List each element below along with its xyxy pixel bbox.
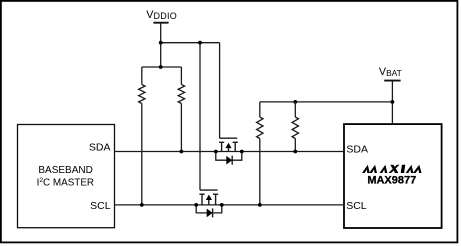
- transistor Q2 (SCL level shifter MOSFET): [199, 190, 218, 205]
- resistor R1 (VDDIO pullup to SCL): [139, 67, 145, 205]
- Q2 body diode: [196, 205, 222, 213]
- svg-text:SCL: SCL: [90, 200, 111, 212]
- transistor Q1 (SDA level shifter MOSFET): [219, 138, 238, 151]
- wire SCL net: [115, 204, 345, 206]
- wire VDDIO rail: [161, 42, 220, 44]
- wire gate Q2: [199, 43, 201, 190]
- junction Q2 drain SCL: [194, 203, 198, 207]
- junction Q1 drain SDA: [214, 150, 218, 154]
- svg-text:SCL: SCL: [346, 200, 367, 212]
- junction R4-SDA: [293, 150, 297, 154]
- junction R3-SCL: [258, 203, 262, 207]
- svg-text:SDA: SDA: [346, 143, 368, 155]
- junction R2-SDA: [180, 150, 184, 154]
- wire VBAT stem to U1: [391, 81, 393, 125]
- junction VBAT rail R4: [293, 100, 297, 104]
- junction Q2 source SCL: [220, 203, 224, 207]
- svg-text:BASEBAND: BASEBAND: [38, 165, 92, 176]
- VDDIO supply bar: [153, 22, 168, 24]
- junction R1-SCL: [140, 203, 144, 207]
- resistor R3 (VBAT pullup to SCL): [257, 102, 263, 205]
- VBAT supply bar: [384, 80, 400, 82]
- junction VBAT stem: [391, 100, 395, 104]
- svg-text:VBAT: VBAT: [379, 66, 402, 78]
- wire VBAT rail: [260, 101, 393, 103]
- svg-text:VDDIO: VDDIO: [146, 9, 177, 21]
- MAXIM logo: [362, 165, 422, 173]
- wire VDDIO to pullup rail: [160, 43, 162, 67]
- svg-text:SDA: SDA: [89, 142, 111, 154]
- Q1 body diode: [216, 152, 242, 161]
- junction Q1 source SDA: [240, 150, 244, 154]
- junction VDDIO-resistors: [159, 41, 163, 45]
- resistor R4 (VBAT pullup to SDA): [292, 102, 298, 152]
- wire pullup top rail: [142, 66, 182, 68]
- junction VDDIO-gate Q2: [198, 41, 202, 45]
- svg-text:I2C MASTER: I2C MASTER: [37, 177, 94, 188]
- MAX9877 IC U1: [344, 124, 442, 228]
- resistor R2 (VDDIO pullup to SDA): [178, 67, 184, 152]
- wire VDDIO stem: [160, 23, 162, 43]
- wire SDA net: [115, 151, 345, 153]
- wire gate Q1: [219, 43, 221, 139]
- baseband I2C master block: [18, 125, 115, 228]
- svg-text:MAX9877: MAX9877: [367, 175, 416, 187]
- junction pullup rail: [159, 65, 163, 69]
